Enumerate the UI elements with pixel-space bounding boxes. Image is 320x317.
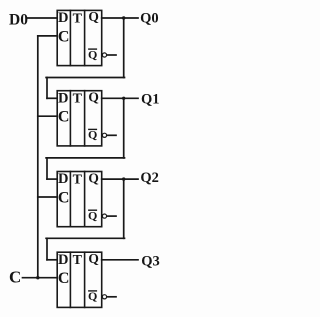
wire U1 Q output to Q0 — [102, 17, 138, 19]
wire clock branch to U1 pin C — [38, 35, 57, 37]
svg-text:C: C — [9, 268, 21, 287]
svg-text:D: D — [58, 171, 68, 187]
svg-text:C: C — [58, 270, 70, 287]
U2 Qbar bubble — [102, 133, 106, 137]
U4 Qbar stub wire — [107, 296, 116, 298]
wire Q1 feedback vertical left — [46, 158, 48, 179]
flip-flop U2 — [57, 90, 116, 146]
wire clock branch to U3 pin C — [38, 196, 57, 198]
svg-text:Q1: Q1 — [141, 92, 160, 108]
flip-flop U4 — [57, 251, 116, 307]
wire U3 Q output to Q2 — [102, 178, 138, 180]
U4 Qbar bubble — [102, 295, 106, 299]
svg-text:C: C — [58, 28, 70, 45]
U3 divider 2 — [84, 172, 86, 227]
flip-flop U3 — [57, 170, 116, 226]
U2 body — [57, 91, 101, 146]
junction Q2 feedback — [122, 177, 125, 180]
wire clock branch to U2 pin C — [38, 115, 57, 117]
svg-text:Q: Q — [88, 9, 99, 24]
wire Q1 feedback vertical right — [123, 98, 125, 158]
U1 divider 1 — [69, 10, 71, 65]
svg-text:Q3: Q3 — [141, 254, 160, 270]
junction Q0 feedback — [122, 16, 125, 19]
wire Q0 feedback vertical right — [123, 18, 125, 78]
svg-text:D: D — [58, 90, 68, 106]
wire Q0 feedback horizontal — [46, 77, 124, 79]
svg-text:Q2: Q2 — [140, 170, 159, 186]
U4 divider 1 — [69, 252, 71, 307]
svg-text:C: C — [58, 189, 70, 206]
svg-text:D: D — [58, 10, 68, 26]
wire Q2 to U4 pin D — [47, 259, 57, 261]
wire Q2 feedback horizontal — [46, 237, 124, 239]
svg-text:T: T — [73, 11, 83, 26]
svg-text:Q: Q — [88, 251, 99, 266]
wire Q2 feedback vertical right — [123, 179, 125, 238]
U1 body — [57, 10, 101, 65]
U2 divider 1 — [69, 91, 71, 146]
U4 divider 2 — [84, 252, 86, 307]
U3 divider 1 — [69, 172, 71, 227]
U2 Qbar stub wire — [107, 134, 116, 136]
wire Q1 feedback horizontal — [46, 157, 124, 159]
U3 body — [57, 172, 101, 227]
U1 Qbar bubble — [102, 53, 106, 57]
wire Q1 to U3 pin D — [47, 178, 57, 180]
wire C input — [23, 277, 58, 279]
U3 Qbar bubble — [102, 214, 106, 218]
svg-text:Q0: Q0 — [140, 10, 159, 26]
svg-text:Q: Q — [88, 170, 99, 185]
junction C clock rail — [36, 276, 39, 279]
wire Q0 feedback vertical left — [46, 78, 48, 99]
flip-flop U1 — [57, 9, 116, 65]
wire clock rail vertical — [37, 36, 39, 278]
svg-text:C: C — [58, 109, 70, 126]
wire Q0 to U2 pin D — [47, 97, 57, 99]
svg-text:T: T — [73, 173, 83, 188]
U4 body — [57, 252, 101, 307]
wire U2 Q output to Q1 — [102, 97, 138, 99]
svg-text:T: T — [73, 92, 83, 107]
svg-text:D: D — [58, 252, 68, 268]
wire D0 to U1 pin D — [28, 17, 58, 19]
junction Q1 feedback — [122, 97, 125, 100]
svg-text:T: T — [73, 253, 83, 268]
wire Q2 feedback vertical left — [46, 238, 48, 259]
wire U4 Q output to Q3 — [102, 259, 138, 261]
U3 Qbar stub wire — [107, 215, 116, 217]
U1 divider 2 — [84, 10, 86, 65]
U2 divider 2 — [84, 91, 86, 146]
svg-text:Q: Q — [88, 90, 99, 105]
U1 Qbar stub wire — [107, 54, 116, 56]
svg-text:D0: D0 — [9, 11, 28, 28]
